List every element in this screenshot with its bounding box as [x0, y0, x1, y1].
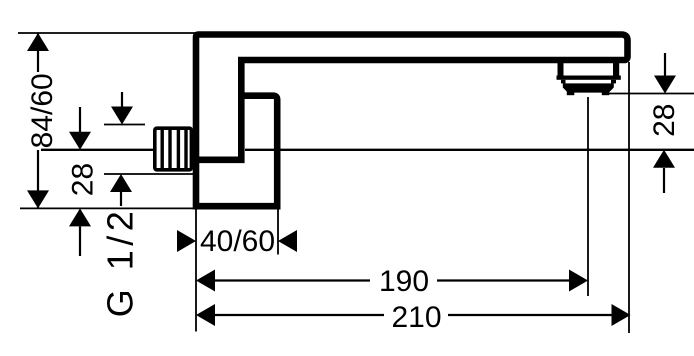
extension line aerator level (y=93.5): [609, 93, 694, 95]
extension line x=629 arm end: [628, 62, 630, 333]
centerline left segment: [41, 149, 154, 151]
dimension 28 left: arrow up to bottom line: [79, 226, 81, 256]
tick G1/2 top: [104, 124, 145, 126]
dimension 40/60: arrow pointing left at x=278: [278, 230, 297, 252]
svg-text:210: 210: [391, 301, 441, 334]
spout body lower step contour: [193, 96, 277, 207]
threaded connector outline: [155, 128, 192, 170]
aerator cap right nub: [602, 91, 610, 95]
dimension 190 line: [213, 279, 370, 281]
svg-text:84/60: 84/60: [26, 73, 59, 148]
aerator step1 left wall: [558, 61, 564, 76]
arrow 190 right: [569, 270, 588, 292]
aerator cap left nub: [567, 91, 575, 95]
aerator bottom cap: [563, 83, 614, 92]
dimension 28 right: arrow down to aerator level: [664, 53, 666, 77]
threaded connector stripes: [160, 128, 163, 171]
extension line x=588 aerator center: [587, 97, 589, 296]
extension line top (y=33): [18, 32, 196, 34]
dimension G1/2: arrow down to top tick: [121, 92, 123, 108]
dimension 84/60 line lower: [37, 150, 39, 208]
dimension 84/60 line upper: [37, 33, 39, 72]
svg-text:28: 28: [648, 104, 681, 137]
centerline right segment: [245, 149, 694, 151]
aerator step1 right wall: [613, 61, 619, 76]
dimension 210 line: [213, 314, 384, 316]
aerator mid right wall: [611, 80, 616, 84]
arrow 190 left: [196, 270, 215, 292]
extension line x=278 below body: [277, 209, 279, 255]
svg-text:28: 28: [67, 163, 100, 196]
extension line bottom (y=208.4): [20, 207, 194, 209]
dimension 28 right: arrow up to centerline: [663, 168, 665, 193]
extension line x=196 below body: [195, 209, 197, 332]
aerator flange: [557, 76, 621, 80]
svg-text:G 1/2: G 1/2: [100, 207, 141, 318]
arrow 210 left: [196, 304, 215, 326]
arrow 84/60 down: [27, 190, 49, 208]
dimension 40/60: arrow pointing right at x=196: [177, 230, 196, 252]
dimension 28 left: arrow down to centerline: [79, 107, 81, 133]
arrow 210 right: [612, 304, 631, 326]
svg-text:40/60: 40/60: [200, 225, 275, 258]
svg-text:190: 190: [379, 265, 429, 298]
spout body outer contour: [193, 35, 628, 210]
aerator mid left wall: [561, 80, 566, 84]
tick G1/2 bottom: [104, 173, 193, 175]
arrow 84/60 up: [27, 33, 49, 51]
dimension G1/2: arrow up to bottom tick: [120, 189, 122, 206]
